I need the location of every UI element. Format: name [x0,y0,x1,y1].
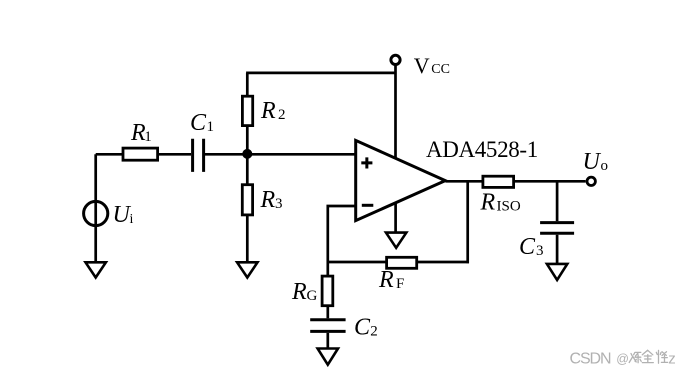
label RISO [480,190,521,216]
label R3 [260,187,283,213]
svg-text:CSDN: CSDN [570,350,611,367]
resistor R1 [123,148,158,160]
label C2 [354,314,378,340]
resistor R2 [242,96,252,125]
wire RG branch vertical [326,262,329,318]
wire VCC drop to op-amp [394,64,397,160]
svg-text:o: o [601,158,609,174]
svg-text:R: R [260,187,276,213]
svg-text:1: 1 [207,119,215,135]
svg-text:CC: CC [431,62,450,77]
wire C3 branch [556,181,559,263]
svg-text:G: G [307,288,318,304]
svg-text:F: F [396,276,404,292]
VCC terminal circle [391,55,400,64]
wire C2 to ground [326,333,329,348]
capacitor C3 [540,223,574,234]
resistor RG [322,276,333,306]
svg-text:i: i [130,212,134,227]
output terminal Uo circle [587,177,595,185]
svg-text:@: @ [616,352,629,366]
voltage source Ui [84,201,108,225]
label C3 [519,234,544,260]
capacitor C2 [310,320,345,332]
svg-text:3: 3 [275,196,283,212]
op-amp plus mark [361,157,372,168]
op-amp minus mark [362,204,374,207]
wire main input horizontal [96,153,191,156]
label R1 [130,120,152,146]
wire feedback rail [328,261,469,264]
svg-text:z: z [668,350,676,367]
ground (source) [86,262,106,277]
svg-text:R: R [291,279,307,305]
wire VCC top rail [246,72,395,75]
svg-text:C: C [190,110,207,136]
svg-text:3: 3 [536,243,544,259]
resistor RISO [483,176,514,187]
capacitor C1 [193,139,204,172]
svg-text:1: 1 [144,129,152,145]
svg-text:R: R [378,267,394,293]
svg-text:C: C [519,234,536,260]
svg-text:2: 2 [278,107,286,123]
wire R3 branch vertical [246,154,249,262]
svg-text:C: C [354,314,371,340]
svg-text:U: U [583,149,602,175]
svg-text:V: V [414,53,430,78]
label R2 [260,98,286,124]
wire C1 to op-amp noninverting input [205,153,356,156]
wire R2 branch vertical [246,73,249,154]
ground (op-amp) [386,233,406,248]
wire op-amp negative supply [394,203,397,232]
wire input branch vertical [94,154,97,261]
watermark z [668,350,676,367]
watermark CJK glyphs [629,350,667,363]
label VCC [414,53,450,78]
label RF [378,267,404,293]
resistor RF [387,257,417,268]
resistor R3 [242,185,252,215]
wire inverting input stub and vertical [328,206,356,262]
svg-text:ADA4528-1: ADA4528-1 [426,137,538,162]
node A junction dot [242,149,252,159]
ground (C2) [318,349,338,365]
svg-text:ISO: ISO [497,198,521,214]
label Ui [113,202,134,228]
svg-text:2: 2 [370,323,378,339]
label Uo [583,149,609,175]
wire output horizontal [446,180,586,183]
wire output branch down [466,181,469,263]
svg-text:R: R [480,190,496,216]
label ADA4528-1 [426,137,538,162]
op-amp U1 ADA4528-1 triangle [356,140,446,220]
ground (R3 branch) [237,262,257,277]
label RG [291,279,318,305]
watermark CSDN [570,350,630,367]
label C1 [190,110,214,136]
ground (C3) [547,264,567,280]
svg-text:R: R [260,98,276,124]
